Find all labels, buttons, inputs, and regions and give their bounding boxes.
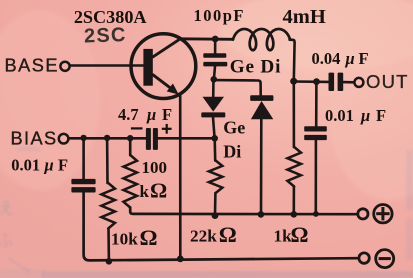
- svg-text:Ge Di: Ge Di: [230, 57, 281, 78]
- svg-text:4mH: 4mH: [283, 6, 326, 28]
- svg-text:μ: μ: [345, 49, 355, 68]
- svg-text:Ω: Ω: [150, 178, 167, 202]
- svg-text:1k: 1k: [274, 226, 293, 245]
- svg-text:100pF: 100pF: [194, 6, 246, 25]
- svg-text:F: F: [58, 156, 68, 175]
- svg-text:F: F: [376, 106, 386, 125]
- svg-text:Ge: Ge: [223, 118, 245, 138]
- svg-text:10k: 10k: [111, 229, 138, 248]
- svg-text:0.04: 0.04: [312, 49, 341, 68]
- svg-text:Ω: Ω: [140, 225, 158, 250]
- svg-text:μ: μ: [146, 105, 156, 124]
- svg-text:Ω: Ω: [291, 222, 309, 247]
- svg-text:22k: 22k: [190, 227, 217, 246]
- svg-text:BASE: BASE: [5, 56, 60, 76]
- svg-text:OUT: OUT: [366, 71, 409, 92]
- svg-text:Ω: Ω: [219, 222, 237, 247]
- svg-text:F: F: [162, 105, 172, 124]
- svg-text:4.7: 4.7: [118, 105, 139, 124]
- svg-text:ふ: ふ: [0, 233, 13, 250]
- svg-text:100: 100: [142, 158, 168, 177]
- svg-text:F: F: [359, 49, 369, 68]
- svg-text:BIAS: BIAS: [11, 129, 58, 149]
- svg-text:0.01: 0.01: [11, 156, 40, 175]
- svg-text:0.01: 0.01: [325, 106, 354, 125]
- svg-text:k: k: [140, 182, 150, 201]
- svg-text:2SC: 2SC: [84, 24, 127, 47]
- svg-text:μ: μ: [360, 106, 370, 125]
- svg-text:Di: Di: [223, 142, 241, 162]
- svg-text:μ: μ: [44, 156, 54, 175]
- svg-text:え: え: [0, 201, 14, 218]
